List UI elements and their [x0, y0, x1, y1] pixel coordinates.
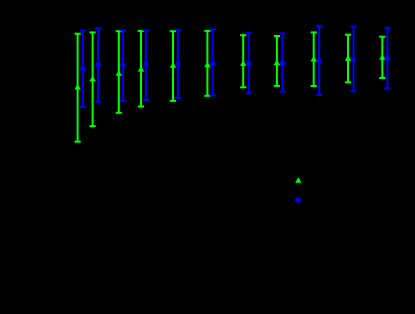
green series point 8 error bar: [274, 36, 280, 86]
green series point 6 triangle marker: [204, 62, 210, 68]
blue series point 7 circle marker: [246, 61, 251, 66]
legend green triangle marker: [295, 177, 301, 183]
green series point 7 triangle marker: [240, 60, 246, 66]
blue series point 7 error bar: [246, 33, 252, 93]
blue series point 3 error bar: [120, 30, 126, 101]
blue series point 2 circle marker: [95, 62, 100, 67]
green series point 9 triangle marker: [311, 56, 317, 62]
green series point 5 triangle marker: [170, 62, 176, 68]
blue series point 8 circle marker: [280, 61, 285, 66]
green series point 3 triangle marker: [116, 70, 122, 76]
green series point 2 triangle marker: [89, 76, 95, 82]
blue series point 1 error bar: [80, 30, 86, 107]
green series point 1 triangle marker: [74, 84, 80, 90]
green series point 4 triangle marker: [138, 66, 144, 72]
blue series point 2 error bar: [95, 28, 101, 102]
green series point 8 triangle marker: [274, 60, 280, 66]
green series point 5 error bar: [170, 31, 176, 101]
blue series point 6 error bar: [210, 29, 216, 95]
blue series point 11 circle marker: [385, 56, 390, 61]
green series point 10 triangle marker: [345, 55, 351, 61]
green series point 11 error bar: [379, 37, 385, 78]
green series point 10 error bar: [345, 35, 351, 83]
blue series point 6 circle marker: [210, 61, 215, 66]
blue series point 5 error bar: [175, 30, 181, 98]
green series point 1 error bar: [75, 34, 81, 142]
green series point 11 triangle marker: [379, 54, 385, 60]
green series point 3 error bar: [116, 31, 122, 113]
blue series point 4 circle marker: [143, 61, 148, 66]
blue series point 10 circle marker: [351, 57, 356, 62]
blue series point 9 error bar: [316, 26, 322, 95]
green series point 6 error bar: [204, 31, 210, 96]
blue series point 1 circle marker: [80, 66, 85, 71]
blue series point 3 circle marker: [120, 62, 125, 67]
blue series point 8 error bar: [279, 34, 285, 92]
blue series point 5 circle marker: [175, 61, 180, 66]
green series point 7 error bar: [240, 35, 246, 87]
blue series point 9 circle marker: [317, 58, 322, 63]
legend blue circle marker: [295, 197, 301, 203]
green series point 9 error bar: [311, 32, 317, 86]
blue series point 10 error bar: [350, 27, 356, 92]
blue series point 11 error bar: [384, 28, 390, 89]
blue series point 4 error bar: [143, 30, 149, 100]
green series point 2 error bar: [90, 32, 96, 126]
green series point 4 error bar: [138, 31, 144, 107]
